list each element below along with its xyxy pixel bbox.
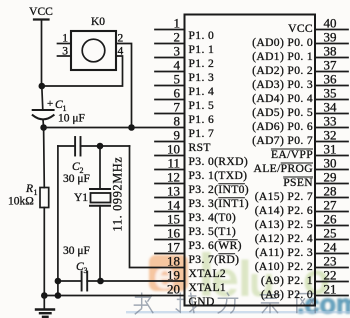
pin 31 number [324,141,337,156]
pin 29 right stub [315,183,348,185]
pin 36 number [324,71,338,86]
svg-text:(A11) P2. 3: (A11) P2. 3 [255,246,313,259]
svg-text:30 μF: 30 μF [63,173,90,185]
wire VCC node to button pin4 [42,56,123,86]
crystal Y1 [74,189,111,206]
wire crystal loop left vertical [57,146,59,296]
pin 23 right stub [315,267,348,269]
svg-text:P3. 0(RXD): P3. 0(RXD) [189,155,249,168]
node ground junction left [41,292,48,299]
pin 1 number [174,15,181,30]
svg-text:34: 34 [324,99,338,114]
svg-text:(AD0) P0. 0: (AD0) P0. 0 [252,36,313,49]
svg-text:25: 25 [324,225,337,240]
svg-text:30 μF: 30 μF [63,245,90,257]
pin 8 label P1. 7 [189,127,215,140]
pin 12 label P3. 2(INT0) [189,183,250,196]
pin 5 label P1. 4 [189,85,215,98]
svg-text:1: 1 [174,15,181,30]
svg-text:(AD4) P0. 4: (AD4) P0. 4 [252,92,313,105]
pin 12 number [167,169,180,184]
wire RST net to IC pin RST row [44,127,185,129]
svg-text:RST: RST [189,141,211,154]
pin 11 number [167,155,180,170]
node button-RST junction [128,124,135,131]
svg-text:P3. 7(RD): P3. 7(RD) [189,253,240,266]
pin 21 number [324,281,337,296]
svg-text:(A14) P2. 6: (A14) P2. 6 [255,204,313,217]
pin 31 right stub [315,155,348,157]
pin 25 number [324,225,337,240]
node Y1 bottom junction [97,278,104,285]
capacitor C1 10uF electrolytic [33,98,85,125]
pin 4 left stub [155,71,185,73]
pin 32 number [324,127,337,142]
wire button pin2 down to RST net [116,44,132,128]
svg-text:4: 4 [174,57,181,72]
svg-text:(AD6) P0. 6: (AD6) P0. 6 [252,120,313,133]
svg-text:21: 21 [324,281,337,296]
pin 25 right stub [315,239,348,241]
svg-text:P3. 6(WR): P3. 6(WR) [189,239,242,252]
pin 19 number [167,267,180,282]
svg-text:(AD5) P0. 5: (AD5) P0. 5 [252,106,313,119]
watermark green letters lelu o [198,242,330,309]
pin 17 left stub [155,253,185,255]
pin 26 label (A13) P2. 5 [255,218,313,231]
svg-text:XTAL2: XTAL2 [189,267,227,280]
svg-text:PSEN: PSEN [283,176,313,189]
svg-text:1: 1 [34,188,38,197]
pin 2 of K0 [118,33,124,45]
svg-text:3: 3 [84,266,88,275]
wire crystal loop top with C2 [58,145,130,147]
pin 27 number [324,197,338,212]
pin 20 number [167,281,180,296]
pin 29 number [324,169,337,184]
pin 2 number [174,29,181,44]
pin 26 right stub [315,225,348,227]
pin 40 right stub [315,29,348,31]
svg-text:P1. 0: P1. 0 [189,29,215,42]
svg-text:10kΩ: 10kΩ [8,196,34,208]
watermark light blue underline [126,311,350,313]
node RST junction under C1 [40,124,47,131]
pin 29 label PSEN [283,176,313,189]
pin 30 right stub [315,169,348,171]
svg-text:3: 3 [174,43,181,58]
svg-text:(AD7) P0. 7: (AD7) P0. 7 [252,134,313,147]
svg-text:P1. 2: P1. 2 [189,57,215,70]
pin 3 number [174,43,181,58]
pin 32 right stub [315,141,348,143]
svg-text:R: R [25,183,33,195]
svg-text:(AD3) P0. 3: (AD3) P0. 3 [252,78,313,91]
pin 30 number [324,155,337,170]
pin 1 label P1. 0 [189,29,215,42]
pin 37 right stub [315,71,348,73]
svg-text:P1. 4: P1. 4 [189,85,215,98]
pin 22 label (A9) P2. 1 [261,274,313,287]
svg-text:ALE/PROG: ALE/PROG [254,162,314,175]
pin 20 left stub [0,0,1,1]
pin 24 right stub [315,253,348,255]
pin 6 label P1. 5 [189,99,215,112]
svg-text:10: 10 [167,141,180,156]
pin 33 right stub [315,127,348,129]
capacitor C2 30uF [63,137,90,185]
wire XTAL2 from loop top to IC pin 18 [130,146,185,268]
svg-text:(AD2) P0. 2: (AD2) P0. 2 [252,64,313,77]
pin 14 label P3. 4(T0) [189,211,237,224]
svg-text:+: + [47,98,53,110]
svg-text:5: 5 [174,71,181,86]
svg-text:11: 11 [167,155,180,170]
svg-text:P3. 4(T0): P3. 4(T0) [189,211,237,224]
pin 3 label P1. 2 [189,57,215,70]
wire C3 row to IC pin 19 XTAL1 [58,280,185,282]
pin 31 label EA/VPP [271,148,313,161]
pin 1 left stub [155,29,185,31]
wire VCC node to C1 [42,86,43,110]
wire C1 bottom to RST node [42,120,45,128]
svg-text:36: 36 [324,71,338,86]
svg-text:Y1: Y1 [74,192,88,204]
wire Y1 bottom lead [99,206,101,281]
pin 5 left stub [155,85,185,87]
svg-text:23: 23 [324,253,337,268]
pin 5 number [174,71,181,86]
pin 34 label (AD5) P0. 5 [252,106,313,119]
svg-text:29: 29 [324,169,337,184]
node Y1 top junction [97,143,104,150]
svg-text:16: 16 [167,225,181,240]
pin 27 right stub [315,211,348,213]
pin 6 number [174,85,181,100]
pin 10 left stub [155,155,185,157]
pin 28 right stub [315,197,348,199]
svg-text:(A10) P2. 2: (A10) P2. 2 [255,260,313,273]
pin 20 label GND [189,295,215,308]
svg-text:P3. 1(TXD): P3. 1(TXD) [189,169,248,182]
pin 27 label (A14) P2. 6 [255,204,313,217]
VCC power symbol [29,6,53,20]
pin 15 number [167,211,180,226]
pin 34 number [324,99,338,114]
pin 16 number [167,225,181,240]
svg-text:12: 12 [167,169,180,184]
pin 2 label P1. 1 [189,43,215,56]
pin 7 label P1. 6 [189,113,215,126]
svg-text:9: 9 [174,127,181,142]
pin 4 label P1. 3 [189,71,215,84]
pin 28 label (A15) P2. 7 [255,190,313,203]
pin 3 left stub [155,57,185,59]
pin 9 left stub [155,141,185,143]
pin 7 left stub [155,113,185,115]
pin 12 left stub [155,183,185,185]
pin 24 number [324,239,338,254]
svg-text:6: 6 [174,85,181,100]
pin 17 label P3. 7(RD) [189,253,240,266]
pin 2 left stub [155,43,185,45]
node C3 left junction [55,278,62,285]
svg-text:VCC: VCC [288,22,313,35]
watermark orange block letter e [149,255,188,297]
pushbutton K0 [71,16,116,70]
pin 25 label (A12) P2. 4 [255,232,313,245]
svg-text:(A13) P2. 5: (A13) P2. 5 [255,218,313,231]
svg-text:2: 2 [174,29,181,44]
svg-text:10 μF: 10 μF [58,113,85,125]
pin 39 right stub [315,43,348,45]
pin 14 number [167,197,181,212]
svg-text:19: 19 [167,267,180,282]
svg-text:17: 17 [167,239,181,254]
svg-text:P1. 7: P1. 7 [189,127,215,140]
svg-text:GND: GND [189,295,215,308]
pin 15 left stub [155,225,185,227]
pin 23 number [324,253,337,268]
pin 18 left stub [0,0,1,1]
svg-text:(AD1) P0. 1: (AD1) P0. 1 [252,50,313,63]
svg-text:37: 37 [324,57,338,72]
pin 11 left stub [155,169,185,171]
svg-text:XTAL1: XTAL1 [189,281,227,294]
svg-text:31: 31 [324,141,337,156]
svg-text:(A15) P2. 7: (A15) P2. 7 [255,190,313,203]
pin 13 label P3. 3(INT1) [189,197,250,210]
svg-text:8: 8 [174,113,181,128]
pin 9 label RST [189,141,211,154]
pin 38 right stub [315,57,348,59]
ground symbol [36,296,54,317]
pin 37 number [324,57,338,72]
svg-text:33: 33 [324,113,337,128]
pin 28 number [324,183,337,198]
pin 16 label P3. 6(WR) [189,239,242,252]
pin 22 right stub [315,281,348,283]
pin 15 label P3. 5(T1) [189,225,237,238]
pin 36 right stub [315,85,348,87]
pin 18 label XTAL2 [189,267,227,280]
svg-text:(A8) P2. 0: (A8) P2. 0 [261,288,313,301]
pin 10 number [167,141,180,156]
pin 8 left stub [0,0,1,1]
svg-text:P3. 3(INT1): P3. 3(INT1) [189,197,250,210]
pin 39 label (AD0) P0. 0 [252,36,313,49]
svg-text:40: 40 [324,15,337,30]
pin 35 number [324,85,337,100]
pin 18 number [167,253,180,268]
svg-text:P3. 5(T1): P3. 5(T1) [189,225,237,238]
node ground junction right [55,292,62,299]
capacitor C3 30uF [63,245,90,291]
pin 11 label P3. 1(TXD) [189,169,248,182]
pin 30 label ALE/PROG [254,162,314,175]
pin 38 label (AD1) P0. 1 [252,50,313,63]
svg-text:(A12) P2. 4: (A12) P2. 4 [255,232,313,245]
pin 10 label P3. 0(RXD) [189,155,249,168]
IC U1 AT89C51 body [185,15,316,306]
pin 21 right stub [315,295,348,297]
svg-text:15: 15 [167,211,180,226]
pin 26 number [324,211,338,226]
svg-text:35: 35 [324,85,337,100]
pin 22 number [324,267,337,282]
svg-text:32: 32 [324,127,337,142]
svg-text:24: 24 [324,239,338,254]
resistor R1 10k [8,183,49,208]
pin 19 left stub [0,0,1,1]
pin 1 of K0 [58,33,72,45]
svg-text:13: 13 [167,183,180,198]
pin 21 label (A8) P2. 0 [261,288,313,301]
pin 4 number [174,57,181,72]
pin 40 number [324,15,337,30]
pin 6 left stub [155,99,185,101]
pin 34 right stub [315,113,348,115]
svg-text:22: 22 [324,267,337,282]
wire Y1 top lead [99,146,101,189]
pin 7 number [174,99,181,114]
pin 3 of K0 [58,46,72,58]
wire RST node down to R1 [43,128,46,188]
pin 35 label (AD4) P0. 4 [252,92,313,105]
watermark gray Chinese characters [134,293,154,315]
svg-text:4: 4 [118,46,124,58]
svg-text:26: 26 [324,211,338,226]
svg-text:(A9) P2. 1: (A9) P2. 1 [261,274,313,287]
pin 33 label (AD6) P0. 6 [252,120,313,133]
svg-text:P1. 6: P1. 6 [189,113,215,126]
svg-text:P3. 2(INT0): P3. 2(INT0) [189,183,250,196]
svg-text:EA/VPP: EA/VPP [271,148,313,161]
pin 17 number [167,239,181,254]
wire ground rail to IC pin 20 GND [44,295,184,297]
pin 33 number [324,113,337,128]
svg-text:P1. 1: P1. 1 [189,43,215,56]
svg-text:P1. 3: P1. 3 [189,71,215,84]
pin 4 of K0 [118,46,124,58]
pin 16 left stub [155,239,185,241]
svg-text:38: 38 [324,43,337,58]
pin 14 left stub [155,211,185,213]
pin 32 label (AD7) P0. 7 [252,134,313,147]
svg-text:30: 30 [324,155,337,170]
pin 23 label (A10) P2. 2 [255,260,313,273]
svg-text:39: 39 [324,29,337,44]
svg-text:14: 14 [167,197,181,212]
svg-text:11. 0992MHz: 11. 0992MHz [111,157,125,232]
node VCC junction [39,83,46,90]
pin 37 label (AD2) P0. 2 [252,64,313,77]
svg-text:P1. 5: P1. 5 [189,99,215,112]
svg-text:7: 7 [174,99,181,114]
wire R1 bottom to ground rail [43,208,45,296]
pin 19 label XTAL1 [189,281,227,294]
pin 35 right stub [315,99,348,101]
svg-text:28: 28 [324,183,337,198]
pin 38 number [324,43,337,58]
svg-text:27: 27 [324,197,338,212]
pin 8 number [174,113,181,128]
svg-text:18: 18 [167,253,180,268]
pin 36 label (AD3) P0. 3 [252,78,313,91]
pin 39 number [324,29,337,44]
svg-text:K0: K0 [91,16,105,28]
pin 40 label VCC [288,22,313,35]
wire VCC rail down to node [41,20,43,87]
pin 13 number [167,183,180,198]
svg-text:VCC: VCC [29,6,53,18]
pin 9 number [174,127,181,142]
svg-text:20: 20 [167,281,180,296]
pin 13 left stub [155,197,185,199]
pin 24 label (A11) P2. 3 [255,246,313,259]
